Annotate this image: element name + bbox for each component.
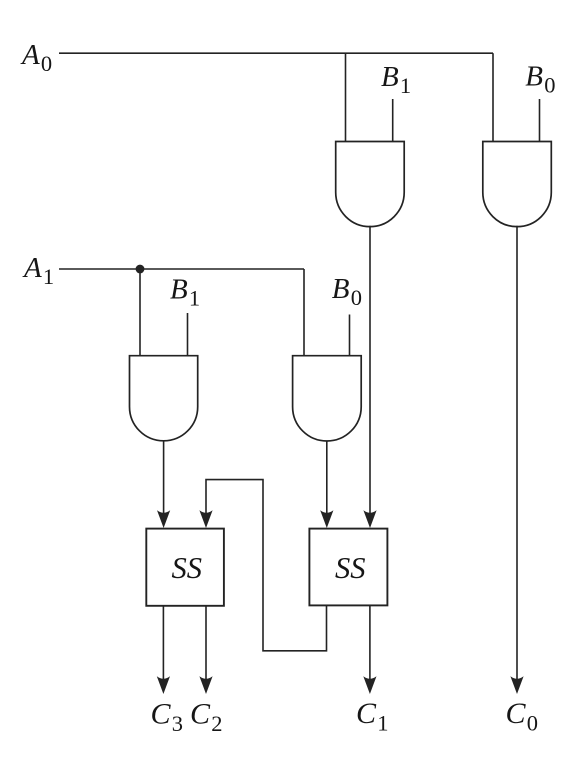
svg-text:C3: C3 (151, 698, 183, 737)
wire U2 output to C0 (516, 226, 518, 682)
AND gate U4 (A1 B0) (293, 356, 362, 441)
arrowhead output C0 (510, 676, 523, 694)
wire A0 horizontal bus (59, 52, 493, 54)
wire U3 output to SS1 left input (163, 441, 165, 516)
wire U4 output to SS2 left input (326, 441, 328, 516)
wire U1 output to SS2 right input (369, 226, 371, 516)
wire A1 drop to AND gate U4 input (303, 269, 305, 356)
svg-text:A0: A0 (20, 39, 52, 76)
wire B1 stem to U3 (187, 313, 189, 356)
AND gate U2 (A0 B0) (483, 142, 552, 227)
AND gate U3 (A1 B1) (130, 356, 198, 441)
wire SS1 output to C2 (205, 606, 207, 682)
svg-text:C0: C0 (506, 697, 538, 736)
wire A0 drop to AND gate U2 input (492, 53, 494, 142)
wire B0 stem to U4 (349, 315, 351, 357)
svg-text:A1: A1 (22, 252, 54, 289)
svg-text:C1: C1 (356, 697, 388, 736)
wire SS1 output to C3 (162, 606, 164, 682)
svg-text:B1: B1 (170, 274, 200, 311)
arrowhead into SS1 left input (157, 510, 170, 528)
arrowhead into SS2 left input (320, 510, 333, 528)
arrowhead output C1 (363, 676, 376, 694)
junction dot on A1 bus (136, 265, 145, 274)
svg-text:B0: B0 (332, 273, 362, 310)
AND gate U1 (A0 B1) (336, 142, 405, 227)
arrowhead output C2 (199, 676, 212, 694)
wire SS2 output to C1 (369, 606, 371, 683)
arrowhead into SS1 right input (199, 510, 212, 528)
svg-text:SS: SS (172, 551, 203, 585)
svg-text:B1: B1 (381, 61, 411, 98)
half-adder SS2 box (309, 529, 387, 606)
wire A1 drop to AND gate U3 input (139, 269, 141, 356)
wire A1 horizontal bus (59, 268, 304, 270)
svg-text:B0: B0 (525, 61, 555, 98)
svg-text:SS: SS (335, 551, 366, 585)
arrowhead into SS2 right input (363, 510, 376, 528)
wire A0 drop to AND gate U1 input (345, 53, 347, 142)
wire SS2 carry to SS1 input (feedback path) (206, 480, 327, 651)
half-adder SS1 box (146, 529, 224, 606)
wire B1 stem to U1 (392, 99, 394, 142)
wire B0 stem to U2 (539, 99, 541, 142)
arrowhead output C3 (157, 676, 170, 694)
svg-text:C2: C2 (190, 698, 222, 737)
